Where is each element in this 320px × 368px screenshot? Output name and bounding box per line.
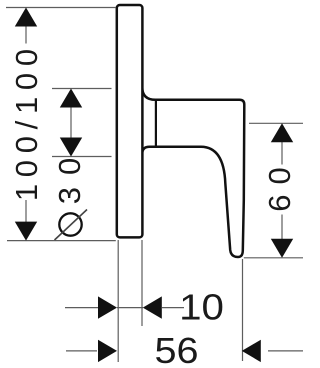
extension line vertical from plate right — [141, 240, 143, 326]
diameter symbol circle — [59, 213, 81, 235]
svg-text:100/100: 100/100 — [9, 42, 44, 201]
extension line Ø30 top — [52, 88, 112, 90]
extension line vertical from plate left — [117, 240, 119, 362]
dimension line 56 right tail — [268, 350, 303, 352]
dimension line 10 left tail — [65, 307, 99, 309]
dimension line 10 right tail — [162, 307, 184, 309]
arrow right-pointing 10 left — [98, 296, 117, 318]
diameter symbol slash — [55, 210, 88, 241]
extension line Ø30 bottom — [52, 156, 112, 158]
dimension line 60 shaft upper — [281, 141, 283, 165]
arrow up 100/100 — [15, 8, 37, 27]
svg-text:56: 56 — [154, 332, 198, 368]
svg-text:60: 60 — [262, 157, 297, 211]
dimension line 100/100 shaft lower — [25, 200, 27, 224]
extension line vertical from lever tip — [242, 259, 244, 361]
extension line 60 bottom — [244, 257, 303, 259]
arrow down 100/100 — [15, 222, 37, 241]
hub joint line — [155, 101, 157, 146]
wall plate (escutcheon) — [117, 5, 143, 237]
extension line top-left (100/100 top) — [6, 7, 116, 9]
dimension line 56 left tail — [66, 350, 97, 352]
arrow up Ø30 — [60, 89, 82, 108]
handle body and lever outline — [142, 87, 244, 257]
dimension line 60 shaft lower — [281, 215, 283, 241]
arrow down 60 — [271, 239, 293, 258]
extension line bottom-left (100/100 bottom) — [7, 240, 116, 242]
arrow left-pointing 10 right — [143, 296, 162, 318]
dimension line Ø30 shaft — [70, 106, 72, 139]
dimension line 100/100 shaft upper — [25, 25, 27, 44]
extension line 60 top — [249, 122, 303, 124]
arrow down Ø30 — [60, 138, 82, 157]
arrow right-pointing 56 left — [98, 340, 117, 362]
arrow left-pointing 56 right — [242, 340, 261, 362]
dimension line 10 inner segment — [117, 307, 143, 309]
svg-text:10: 10 — [179, 287, 224, 328]
arrow up 60 — [271, 123, 293, 142]
svg-text:30: 30 — [52, 146, 87, 204]
